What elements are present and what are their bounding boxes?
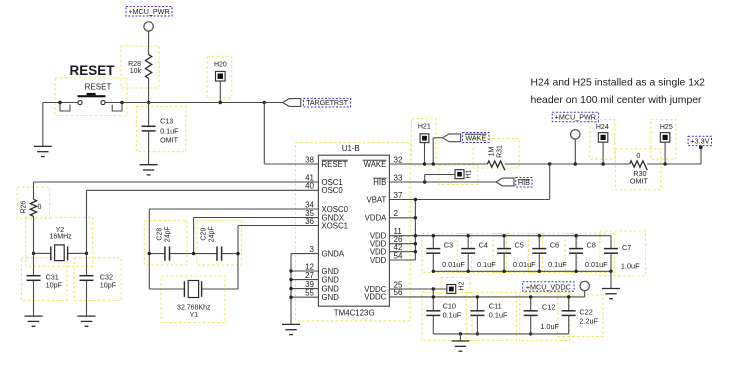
node H1 junction xyxy=(423,180,426,183)
net label WAKE xyxy=(463,133,490,143)
component outline box H20 xyxy=(207,56,232,98)
wire +MCU_PWR to R28 xyxy=(148,31,150,54)
net label TARGETRST xyxy=(303,98,350,107)
ground below reset switch xyxy=(34,146,52,156)
wire R30 to +3.3V xyxy=(647,163,701,165)
wire VDD cap rail bottom xyxy=(433,270,611,272)
wire left of button xyxy=(43,102,78,104)
node GND pin 12 xyxy=(289,269,292,272)
capacitor C7 1.0uF xyxy=(610,236,612,249)
component outline box C31 xyxy=(21,258,67,301)
svg-text:32: 32 xyxy=(394,155,403,164)
component outline box C4 xyxy=(457,234,506,273)
wire pin25 junction down to C10 xyxy=(432,289,434,311)
component outline box H25 xyxy=(651,120,676,160)
node GND pin 55 xyxy=(289,296,292,299)
node +MCU_PWR junction xyxy=(574,162,577,165)
svg-text:2: 2 xyxy=(394,209,399,218)
node VDD bus 26 xyxy=(414,242,417,245)
component outline box C28 xyxy=(144,221,187,265)
wire C10 row bottom rail xyxy=(433,333,568,335)
svg-text:56: 56 xyxy=(394,288,403,297)
capacitor C11 0.1uF xyxy=(476,297,478,311)
header H1 xyxy=(455,170,464,179)
net flag HIB xyxy=(496,178,514,186)
wire VDDA pin 2 xyxy=(389,217,415,219)
svg-text:VDD: VDD xyxy=(370,256,387,265)
node ground tee xyxy=(459,332,462,335)
svg-text:C10: C10 xyxy=(443,301,456,310)
svg-text:H24 and H25 installed as a sin: H24 and H25 installed as a single 1x2 xyxy=(531,77,706,88)
node C29 right xyxy=(236,252,239,255)
node +3.3V terminal xyxy=(699,145,703,149)
capacitor C4 0.1uF xyxy=(467,236,469,249)
svg-text:C29: C29 xyxy=(201,228,208,241)
wire GND pin 27 xyxy=(291,279,318,281)
wire XOSC1 down xyxy=(237,226,239,290)
node C7 bottom xyxy=(609,270,612,273)
svg-text:RESET: RESET xyxy=(322,160,348,169)
wire VDD pin 11 xyxy=(389,235,433,237)
svg-text:TARGETRST: TARGETRST xyxy=(306,98,348,107)
node C22 rail xyxy=(567,295,570,298)
node C5 top xyxy=(502,234,505,237)
node VDDC pin 25 junction xyxy=(432,287,435,290)
svg-text:H1: H1 xyxy=(466,170,473,179)
component outline box C32 xyxy=(74,258,121,301)
svg-text:H20: H20 xyxy=(214,62,227,69)
svg-text:XOSC1: XOSC1 xyxy=(322,221,348,230)
wire XOSC0 pin 34 net xyxy=(149,208,318,210)
svg-text:1.0uF: 1.0uF xyxy=(540,322,559,331)
node C10 rail xyxy=(432,295,435,298)
wire VDD bus vertical xyxy=(414,200,416,261)
ground below GND bus xyxy=(282,324,300,334)
component outline box U1-B xyxy=(296,143,411,321)
svg-text:C7: C7 xyxy=(622,243,631,252)
node VDD bus VBAT xyxy=(414,198,417,201)
component outline box R31 xyxy=(473,138,519,168)
resistor R26 xyxy=(30,199,36,216)
svg-text:GND: GND xyxy=(322,293,340,302)
wire GND pin 55 xyxy=(291,296,318,298)
svg-text:OMIT: OMIT xyxy=(630,177,649,186)
svg-text:3: 3 xyxy=(310,245,315,254)
ground below C10 row xyxy=(451,341,469,351)
capacitor C5 0.01uF xyxy=(503,236,505,249)
wire VDD pin 26 xyxy=(389,243,415,245)
svg-text:header on 100 mil center with: header on 100 mil center with jumper xyxy=(531,95,702,106)
node C3 top xyxy=(432,234,435,237)
crystal Y1 32.768Khz xyxy=(149,288,184,290)
node C12 bottom xyxy=(529,332,532,335)
wire VDDC pin 25 xyxy=(389,288,447,290)
capacitor C13 xyxy=(148,103,150,127)
wire XOSC1 pin 36 net xyxy=(238,225,318,227)
ground below C31 xyxy=(25,316,43,326)
wire VBAT pin 37 xyxy=(389,199,549,201)
node VDD bus 11 xyxy=(414,234,417,237)
wire VDD pin 42 xyxy=(389,251,415,253)
svg-text:0.1uF: 0.1uF xyxy=(489,311,508,320)
component outline box C11 xyxy=(466,293,516,341)
node H24 junction xyxy=(601,162,604,165)
node C28/C29 middle xyxy=(192,252,195,255)
node C4 bottom xyxy=(467,270,470,273)
node C8 top xyxy=(574,234,577,237)
svg-text:H25: H25 xyxy=(660,124,673,131)
svg-text:C3: C3 xyxy=(444,241,453,250)
wire VDD pin 54 xyxy=(389,259,415,261)
pushbutton pin hook right xyxy=(112,103,122,112)
node GND pin 39 xyxy=(289,287,292,290)
svg-text:C28: C28 xyxy=(156,228,163,241)
component outline box C5 xyxy=(493,234,542,273)
svg-text:0: 0 xyxy=(636,151,640,160)
component outline box reset switch xyxy=(55,78,127,116)
node VDD bus VDDA xyxy=(414,216,417,219)
svg-text:OMIT: OMIT xyxy=(160,135,179,144)
node Y2 right xyxy=(85,252,88,255)
wire GNDA pin 3 xyxy=(291,253,318,255)
svg-text:OSC0: OSC0 xyxy=(322,186,344,195)
component outline box H24 xyxy=(590,120,615,160)
node R31/VBAT junction xyxy=(548,162,551,165)
node C11 rail xyxy=(476,295,479,298)
wire OSC0 down to Y2 xyxy=(86,190,88,253)
pushbutton pin hook left xyxy=(60,103,70,112)
node C4 top xyxy=(467,234,470,237)
net label HIB xyxy=(516,178,532,188)
svg-text:32.768Khz: 32.768Khz xyxy=(177,304,211,311)
node C6 top xyxy=(538,234,541,237)
svg-text:Y1: Y1 xyxy=(190,312,199,319)
component outline box C29 xyxy=(197,221,241,265)
wire +MCU_VDDC down xyxy=(584,291,586,297)
capacitor C22 2.2uF xyxy=(568,297,570,311)
component outline box C13 xyxy=(136,107,185,152)
wire to ground left xyxy=(42,103,44,147)
component outline box H2 xyxy=(441,278,470,298)
wire H1 stub xyxy=(424,175,426,183)
wire button to TARGETRST node xyxy=(105,102,264,104)
capacitor C10 0.1uF xyxy=(426,311,440,316)
svg-text:R31: R31 xyxy=(497,145,504,158)
svg-text:10pF: 10pF xyxy=(46,280,63,289)
svg-text:0.01uF: 0.01uF xyxy=(442,260,465,269)
node R28/C13 junction xyxy=(147,101,150,104)
capacitor C28 24pF xyxy=(149,253,165,255)
wire GND pin 12 xyxy=(291,270,318,272)
component outline box C8 xyxy=(565,234,614,273)
svg-text:+3.3V: +3.3V xyxy=(690,136,709,145)
svg-text:C8: C8 xyxy=(587,241,596,250)
svg-text:C11: C11 xyxy=(489,301,502,310)
svg-text:C4: C4 xyxy=(479,241,488,250)
capacitor C12 1.0uF xyxy=(530,297,532,311)
node C3 bottom xyxy=(432,270,435,273)
svg-text:RESET: RESET xyxy=(69,63,115,78)
svg-text:33: 33 xyxy=(394,173,403,182)
power flag +MCU_VDDC xyxy=(523,282,575,292)
wire to ground xyxy=(459,334,461,341)
svg-text:WAKE: WAKE xyxy=(364,160,387,169)
svg-text:C5: C5 xyxy=(515,241,524,250)
svg-text:VBAT: VBAT xyxy=(367,195,387,204)
wire WAKE flag stub xyxy=(432,138,434,164)
ground below C13 xyxy=(140,165,158,175)
svg-text:HIB: HIB xyxy=(373,178,386,187)
wire OSC1 pin 41 net xyxy=(34,181,319,183)
svg-text:C12: C12 xyxy=(542,302,555,311)
wire riser to +3.3V flag xyxy=(700,146,702,164)
wire TARGETRST node to pin 38 xyxy=(263,103,265,165)
node GND pin 27 xyxy=(289,278,292,281)
node TARGETRST junction xyxy=(263,101,266,104)
net label +3.3V xyxy=(688,136,711,145)
svg-text:C22: C22 xyxy=(579,308,592,317)
wire pin 33 HIB net xyxy=(389,181,496,183)
wire OSC1 down to R26 xyxy=(33,182,35,199)
svg-text:H2: H2 xyxy=(458,281,465,290)
component outline box Y2 xyxy=(26,217,93,266)
node button left pin xyxy=(58,101,61,104)
svg-text:1.0uF: 1.0uF xyxy=(621,262,640,271)
capacitor C6 0.1uF xyxy=(538,236,540,249)
svg-text:H24: H24 xyxy=(596,124,609,131)
svg-text:0: 0 xyxy=(38,204,42,211)
svg-text:24pF: 24pF xyxy=(209,226,216,242)
op-amp U1-B IC body TM4C123G xyxy=(318,155,389,306)
wire VDD cap rail top xyxy=(433,235,611,237)
svg-text:TM4C123G: TM4C123G xyxy=(334,309,375,318)
capacitor C32 xyxy=(86,253,88,275)
wire GND bus vertical xyxy=(290,254,292,325)
ground below C32 xyxy=(78,316,96,326)
power flag +MCU_PWR (right) xyxy=(552,112,598,122)
svg-text:WAKE: WAKE xyxy=(465,133,486,142)
net flag TARGETRST xyxy=(283,99,301,107)
node C11 bottom xyxy=(476,332,479,335)
wire to TARGETRST flag xyxy=(264,102,283,104)
svg-text:16MHz: 16MHz xyxy=(50,233,73,240)
ground below C7 xyxy=(602,289,620,299)
svg-text:0.1uF: 0.1uF xyxy=(443,311,462,320)
node C5 bottom xyxy=(502,270,505,273)
component outline box R28 xyxy=(121,46,159,88)
node C28 left xyxy=(148,252,151,255)
component outline box C3 xyxy=(422,234,472,273)
svg-text:27: 27 xyxy=(305,271,314,280)
node VDD bus 42 xyxy=(414,250,417,253)
component outline box H21 xyxy=(411,119,436,166)
svg-text:0.1uF: 0.1uF xyxy=(548,260,567,269)
svg-text:VDDC: VDDC xyxy=(364,293,386,302)
component outline box C12 xyxy=(520,293,570,341)
node H21 junction xyxy=(423,162,426,165)
resistor R28 xyxy=(146,55,152,79)
svg-text:+MCU_PWR: +MCU_PWR xyxy=(555,113,596,122)
svg-text:C6: C6 xyxy=(550,241,559,250)
svg-text:10pF: 10pF xyxy=(100,280,117,289)
svg-text:36: 36 xyxy=(305,217,314,226)
svg-text:GNDA: GNDA xyxy=(322,249,345,258)
wire GND pin 39 xyxy=(291,288,318,290)
component outline box C6 xyxy=(528,234,577,273)
component outline box C22 xyxy=(558,295,603,337)
resistor R30 0 ohm OMIT xyxy=(630,161,648,170)
component outline box Y1 xyxy=(161,276,225,323)
wire GNDX down xyxy=(193,218,195,254)
svg-text:0.01uF: 0.01uF xyxy=(585,260,608,269)
power flag +MCU_PWR (left) xyxy=(126,7,172,17)
wire R26 to Y2 xyxy=(33,216,35,253)
capacitor C29 24pF xyxy=(194,253,217,255)
wire R31 to +3.3V riser xyxy=(505,163,630,165)
capacitor C8 0.01uF xyxy=(575,236,577,249)
wire junction down to VBAT xyxy=(549,164,551,200)
wire OSC0 pin 40 net xyxy=(87,189,319,191)
node H25 junction xyxy=(663,162,666,165)
header H2 xyxy=(447,285,456,294)
node button right pin xyxy=(120,101,123,104)
resistor R31 1M xyxy=(487,161,504,170)
net flag WAKE xyxy=(443,134,461,142)
svg-text:RESET: RESET xyxy=(85,82,112,91)
svg-text:0.1uF: 0.1uF xyxy=(477,260,496,269)
wire R28 to reset net xyxy=(148,79,150,103)
wire GNDX pin 35 net xyxy=(194,217,319,219)
svg-text:37: 37 xyxy=(394,191,403,200)
svg-text:40: 40 xyxy=(305,182,314,191)
svg-text:54: 54 xyxy=(394,251,403,260)
svg-text:R26: R26 xyxy=(21,201,28,214)
node WAKE junction xyxy=(432,162,435,165)
svg-text:H21: H21 xyxy=(418,124,431,131)
capacitor C31 xyxy=(33,253,35,275)
svg-text:10k: 10k xyxy=(130,68,142,75)
node C6 bottom xyxy=(538,270,541,273)
svg-text:+MCU_PWR: +MCU_PWR xyxy=(128,7,169,16)
svg-text:+MCU_VDDC: +MCU_VDDC xyxy=(526,282,571,291)
wire VDDC pin 56 rail xyxy=(389,296,584,298)
svg-text:55: 55 xyxy=(305,289,314,298)
component outline box R30 xyxy=(616,149,661,190)
svg-text:VDDA: VDDA xyxy=(365,214,387,223)
wire XOSC0 down xyxy=(148,209,150,289)
svg-text:24pF: 24pF xyxy=(164,226,171,242)
svg-text:2.2uF: 2.2uF xyxy=(579,317,598,326)
svg-text:U1-B: U1-B xyxy=(342,144,360,153)
svg-text:0.01uF: 0.01uF xyxy=(513,260,536,269)
component outline box R26 xyxy=(17,187,49,219)
svg-text:GND: GND xyxy=(322,275,340,284)
node C12 rail xyxy=(529,295,532,298)
svg-text:C13: C13 xyxy=(160,116,173,125)
node Y2 left xyxy=(32,252,35,255)
node C8 bottom xyxy=(574,270,577,273)
capacitor C3 0.01uF xyxy=(432,236,434,249)
svg-text:38: 38 xyxy=(305,155,314,164)
wire C7 to ground xyxy=(610,271,612,288)
svg-text:0.1uF: 0.1uF xyxy=(160,126,179,135)
svg-text:1M: 1M xyxy=(489,146,496,156)
wire pin 32 WAKE to R31 xyxy=(389,163,487,165)
component outline box H1 xyxy=(439,165,478,185)
node H20 junction xyxy=(219,101,222,104)
wire +MCU_PWR down xyxy=(574,139,576,164)
component outline box C10 xyxy=(422,293,472,341)
component outline box C7 xyxy=(600,231,646,276)
